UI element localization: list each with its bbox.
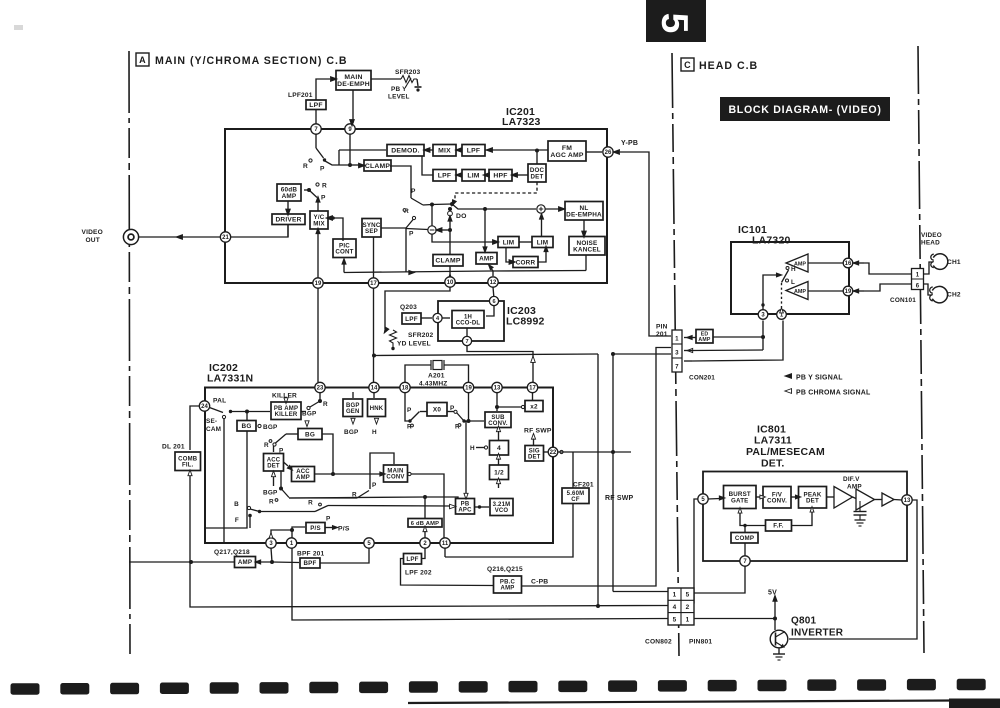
IC201 pin 10: [445, 277, 455, 287]
svg-text:CLAMP: CLAMP: [435, 258, 460, 265]
crystal A201: [433, 361, 442, 370]
wire CLAMP to pin 10: [449, 266, 451, 276]
svg-text:P/S: P/S: [310, 525, 321, 532]
svg-text:P: P: [411, 188, 416, 195]
svg-text:ACC: ACC: [296, 469, 310, 475]
svg-text:CLAMP: CLAMP: [365, 163, 390, 170]
wire DEMOD output left: [339, 149, 386, 151]
potentiometer SFR202: [390, 330, 397, 347]
wire COMP to pin7: [744, 543, 746, 556]
svg-text:COMP: COMP: [735, 535, 754, 542]
wire MAIN CONV to pin 11: [411, 474, 444, 538]
wire LPF202 to PB C AMP: [401, 559, 494, 586]
IC101 pin 3: [758, 310, 768, 320]
svg-text:PIN: PIN: [656, 324, 668, 331]
SUB CONV block: [485, 412, 511, 428]
wire X0 out: [447, 411, 454, 413]
svg-text:DET: DET: [528, 455, 541, 461]
svg-text:H: H: [470, 445, 475, 452]
wire to BG1: [246, 412, 248, 421]
wire LIM1 to CORR: [506, 248, 510, 263]
switch lever sync R: [406, 219, 414, 228]
svg-text:DO: DO: [456, 213, 467, 220]
svg-text:H: H: [372, 429, 377, 436]
legend PB Y arrow: [785, 374, 792, 379]
wire pin19 down: [468, 393, 470, 421]
svg-text:A201: A201: [428, 373, 445, 380]
contact BG2 P: [273, 443, 276, 446]
wire pin3 down: [271, 548, 272, 562]
wire ACC AMP to MAIN CONV: [315, 473, 382, 475]
svg-text:SFR203: SFR203: [395, 69, 421, 76]
wire CLAMP1 to PB switch: [390, 166, 411, 198]
contact pin23 P: [307, 406, 310, 409]
switch lever BG2: [276, 434, 287, 443]
wire LPF to IC203 pin4: [421, 317, 432, 319]
wire to MAIN CONV top: [370, 453, 394, 489]
svg-text:MIX: MIX: [313, 220, 325, 227]
arrow into pin19: [853, 289, 859, 293]
wire pin16 to CON101-1: [864, 263, 911, 274]
arrow HPF to LIM: [483, 173, 490, 178]
wire into VCO: [481, 506, 489, 508]
svg-text:4: 4: [673, 604, 677, 611]
svg-text:YD LEVEL: YD LEVEL: [397, 341, 431, 348]
junction Y/C feed: [331, 216, 335, 220]
svg-text:PB CHROMA SIGNAL: PB CHROMA SIGNAL: [796, 390, 871, 397]
svg-text:H: H: [791, 266, 796, 273]
wire SYNC SEP right: [381, 227, 406, 229]
svg-text:ACC: ACC: [267, 457, 281, 463]
wire to BPF: [272, 561, 299, 564]
wire pin19 to pin23: [317, 288, 319, 382]
wire comb to AMP: [129, 561, 234, 563]
wire ACC DET bgp: [273, 477, 275, 486]
wire pin17 to pin14: [373, 288, 375, 382]
bus pin1 to PIN801-5: [292, 548, 668, 620]
svg-text:R: R: [308, 500, 313, 507]
IC202 pin 24: [199, 401, 209, 411]
IC202 pin 18: [400, 382, 410, 392]
wire to PB APC corner: [425, 497, 458, 499]
svg-text:CCO-DL: CCO-DL: [456, 321, 481, 327]
svg-text:17: 17: [529, 386, 536, 392]
svg-text:KILLER: KILLER: [275, 412, 298, 418]
arrow SUB CONV up: [496, 426, 500, 432]
arrow into head switch: [776, 273, 782, 277]
LPF block second row: [433, 170, 456, 182]
junction 60dB switch: [307, 188, 311, 192]
COMB FIL block: [175, 452, 201, 471]
svg-text:17: 17: [370, 281, 377, 287]
arrow into NL DE-EMPHA: [559, 207, 566, 212]
svg-text:CH2: CH2: [947, 292, 961, 299]
SFR203 wiper arrow: [405, 78, 411, 88]
wire BURST to F/V: [756, 496, 761, 498]
contact L: [786, 279, 789, 282]
wire pin12 to AMP: [490, 267, 493, 276]
wire SIG DET up: [533, 439, 535, 446]
wire terminal to node 21: [139, 236, 220, 238]
wire pin1 to ED AMP: [684, 337, 696, 339]
switch lever pin23: [310, 401, 320, 407]
junction comb fil line: [189, 560, 193, 564]
CLAMP block upper: [364, 160, 391, 171]
svg-text:LEVEL: LEVEL: [388, 94, 410, 101]
contact MAIN CONV out: [408, 472, 411, 475]
dropout indicator: [448, 211, 453, 216]
wire subtractor top: [431, 205, 433, 227]
svg-text:LPF: LPF: [438, 173, 451, 180]
contact SECAM: [222, 415, 225, 418]
wire pin17b to x2: [532, 393, 534, 400]
wire pin18 to crystal: [405, 365, 431, 382]
svg-text:6: 6: [916, 284, 920, 290]
arrow into AMP right: [255, 560, 261, 564]
svg-text:BGP: BGP: [263, 424, 278, 431]
PB AMP KILLER block: [271, 402, 301, 420]
wire Y-PB to PIN201-1: [620, 152, 671, 336]
IC101 pin 1: [777, 310, 787, 320]
wire PAL contact to PB AMP KILLER: [231, 411, 270, 413]
junction bus split: [611, 352, 615, 356]
svg-text:PIN801: PIN801: [689, 639, 712, 646]
wire amp L to pin19: [808, 290, 843, 292]
wire Y/C MIX top: [317, 202, 319, 211]
svg-text:1H: 1H: [464, 314, 472, 320]
IC202 pin 22: [548, 447, 558, 457]
svg-text:LIM: LIM: [537, 239, 549, 246]
arrow DOC to HPF: [511, 173, 518, 178]
svg-text:MAIN: MAIN: [344, 74, 362, 81]
section A left border: [129, 51, 130, 656]
wire 6dB AMP up: [424, 497, 426, 519]
svg-text:P: P: [372, 482, 377, 489]
BG block 2: [298, 429, 322, 440]
svg-text:HEAD C.B: HEAD C.B: [699, 60, 758, 72]
junction 6dB tap: [423, 495, 427, 499]
DOC DET block: [528, 164, 546, 182]
svg-text:P: P: [450, 405, 455, 412]
wire main luminance line: [452, 204, 536, 209]
contact x2: [521, 405, 524, 408]
legend chroma arrow: [785, 389, 792, 394]
arrow into NOISE KANCEL: [582, 231, 587, 238]
contact X0 right R: [458, 424, 461, 427]
BGP GEN block: [343, 399, 363, 417]
junction BG2 conv: [331, 472, 335, 476]
svg-text:DRIVER: DRIVER: [275, 217, 301, 224]
wire AMP to BPF node: [256, 561, 273, 563]
LPF201 block: [306, 100, 326, 110]
ED AMP block: [696, 330, 713, 344]
wire to dropout point: [432, 203, 452, 206]
DEMOD block: [387, 145, 424, 157]
svg-text:FIL.: FIL.: [182, 463, 194, 469]
wire CORR to LIM2: [538, 249, 546, 262]
switch lever central: [411, 198, 423, 205]
arrow pin3 chroma: [687, 348, 693, 352]
wire pin4 into CCO-DL: [442, 317, 450, 319]
arrow up into BURST GATE: [738, 508, 742, 514]
MAIN DE-EMPH block: [336, 71, 371, 91]
wire to P/S: [292, 527, 305, 538]
ACC AMP block: [292, 467, 315, 482]
junction delayed-Y bus: [372, 354, 376, 358]
wire BG2 to conv line: [322, 434, 333, 474]
wire pin7 to PIN801-5: [694, 566, 745, 593]
svg-text:R: R: [264, 442, 269, 449]
arrow onto SFR202: [382, 327, 389, 334]
svg-text:6: 6: [492, 299, 495, 305]
IC201 outline: [225, 129, 607, 283]
IC801 pin 7: [740, 556, 750, 566]
wire PEAK to amp: [827, 496, 835, 498]
svg-text:F.F.: F.F.: [773, 523, 784, 530]
wire pin11 down: [444, 548, 446, 557]
wire to CLAMP1: [350, 164, 360, 166]
wire killer out stub: [301, 411, 306, 413]
wire pin19 to Y/C MIX: [317, 230, 319, 279]
svg-text:R: R: [303, 163, 308, 170]
svg-text:2: 2: [686, 604, 690, 611]
svg-text:MAIN (Y/CHROMA SECTION) C.B: MAIN (Y/CHROMA SECTION) C.B: [155, 55, 348, 67]
IC201 pin 21: [220, 232, 230, 242]
wire pin14 to HNK: [373, 392, 375, 398]
svg-text:DET: DET: [806, 498, 819, 505]
IC201 pin 12: [488, 277, 498, 287]
svg-text:R: R: [322, 183, 327, 190]
svg-text:SIG: SIG: [529, 448, 540, 454]
svg-text:LPF: LPF: [309, 102, 322, 109]
svg-text:P: P: [321, 195, 326, 202]
wire DO vertical: [449, 209, 451, 254]
svg-text:7: 7: [675, 364, 679, 371]
HPF block: [489, 170, 512, 182]
wire SFR203 to level point: [417, 79, 418, 86]
junction subtractor top: [430, 203, 434, 207]
svg-text:BGP: BGP: [263, 490, 278, 497]
wire pin5 to PIN801-2: [694, 499, 698, 604]
junction BG1 tap: [245, 410, 249, 414]
svg-text:AMP: AMP: [794, 289, 806, 295]
svg-text:CONV: CONV: [386, 475, 404, 481]
PB C AMP block: [494, 576, 522, 593]
arrow above pin3: [269, 533, 273, 538]
arrow up into LIM2: [544, 246, 548, 252]
wire pin13 down: [496, 393, 498, 411]
IC101 outline: [731, 242, 849, 314]
HNK block: [368, 399, 386, 417]
arrow into LPF top: [486, 148, 493, 153]
wire ED AMP to IC101: [713, 336, 763, 338]
svg-text:VCO: VCO: [495, 508, 509, 514]
wire BGP GEN top: [352, 392, 354, 398]
svg-text:1: 1: [673, 592, 677, 599]
wire pin7 stub: [684, 360, 692, 362]
svg-text:PB.C: PB.C: [500, 580, 516, 586]
wire to SUB CONV: [464, 420, 484, 422]
IC203 pin 6: [489, 296, 498, 305]
svg-text:GATE: GATE: [731, 497, 749, 504]
svg-text:CONV.: CONV.: [767, 498, 787, 505]
wire SYNC SEP to pin17: [373, 238, 375, 279]
IC202 pin 17b: [527, 382, 537, 392]
wire demod drop: [338, 150, 340, 165]
wire main line to AMP: [484, 209, 486, 251]
svg-text:VIDEO: VIDEO: [81, 229, 103, 236]
contact BG2 R: [269, 440, 272, 443]
arrow into MAIN DE-EMPH: [331, 77, 338, 82]
arrow HNK out: [374, 418, 378, 424]
junction AMP drop: [483, 207, 487, 211]
Y/C MIX block: [310, 211, 328, 229]
arrow up on DO vertical: [448, 215, 452, 221]
arrow P path up: [316, 196, 320, 202]
junction pin3 drop: [270, 560, 274, 564]
op-amp L: [786, 282, 808, 300]
svg-text:AMP: AMP: [479, 256, 494, 263]
svg-text:13: 13: [904, 498, 911, 504]
contact PAL: [229, 410, 232, 413]
op-amp A: [834, 487, 853, 509]
wire to CF201: [572, 452, 574, 488]
wire pin19 head: [853, 290, 864, 292]
arrow into PEAK: [795, 495, 801, 499]
svg-text:LA7331N: LA7331N: [207, 373, 253, 385]
svg-text:LPF: LPF: [405, 316, 418, 323]
wire H into divider: [476, 447, 484, 449]
arrow into 6dB AMP: [423, 526, 427, 532]
contact BG1: [258, 424, 261, 427]
wire pin10 to SFR202: [385, 287, 450, 329]
dashed dropout control: [455, 182, 537, 200]
svg-text:DET: DET: [267, 464, 280, 470]
switch lever RP: [315, 506, 328, 512]
arrow into pin 9: [350, 120, 355, 127]
CORR block: [513, 257, 538, 268]
svg-text:DE-EMPH: DE-EMPH: [337, 81, 370, 88]
svg-text:AMP: AMP: [698, 337, 710, 343]
junction y to pin3: [761, 335, 765, 339]
LIM block 2: [532, 237, 553, 248]
wire pin3 to switch: [763, 275, 777, 310]
AMP block center: [476, 253, 497, 265]
wire bus down to PIN801-4 bus: [597, 354, 599, 606]
PIC CONT block: [333, 239, 356, 258]
wire BF to RP switch: [260, 511, 316, 513]
junction rf swp: [611, 450, 615, 454]
wire below pin7: [315, 134, 317, 148]
svg-text:R: R: [269, 499, 274, 506]
IC202 pin 13: [492, 382, 502, 392]
wire PIN801-1 to Q801: [694, 618, 775, 620]
IC203 pin 4: [433, 313, 442, 322]
svg-text:DE-EMPHA: DE-EMPHA: [566, 211, 602, 218]
wire RF/chroma vertical to PIN801-1: [612, 354, 614, 592]
junction X0 left lever: [408, 419, 411, 422]
junction BF lever: [258, 510, 261, 513]
bus delayed Y to PIN201-7: [613, 353, 671, 355]
arrow up into Y/C MIX bottom: [316, 228, 320, 234]
svg-text:CH1: CH1: [947, 259, 961, 266]
x2 multiplier block: [525, 401, 543, 412]
wire 1/2 to divider: [498, 459, 500, 465]
section label A box: [136, 53, 149, 66]
wire BPF to pin5: [320, 548, 369, 563]
junction on CON802 bus: [596, 604, 600, 608]
IC203 pin 7: [462, 336, 471, 345]
arrow dropout onto switch: [450, 200, 456, 207]
svg-text:BG: BG: [305, 431, 315, 438]
right page border: [918, 46, 924, 653]
wire RP to PB APC: [328, 505, 450, 508]
connector CON802 PIN801: [668, 588, 694, 625]
IC101 pin 19: [843, 286, 853, 296]
arrow up into PEAK DET: [810, 507, 814, 513]
wire pin5 to BURST GATE: [708, 498, 720, 501]
svg-text:LA7323: LA7323: [502, 116, 541, 128]
arrow up into adder: [539, 213, 543, 219]
junction pin9 line: [348, 163, 352, 167]
wire up to IC101 pin3: [762, 321, 764, 351]
switch lever main conv: [357, 491, 369, 499]
subtractor circle: [428, 226, 436, 234]
wire CF201 to pin 11: [445, 504, 573, 558]
svg-text:18: 18: [402, 386, 409, 392]
switch lever PAL: [210, 408, 224, 413]
arrow up into CLAMP lower: [448, 274, 452, 280]
svg-text:LPF 202: LPF 202: [405, 570, 432, 577]
AMP block q217: [235, 557, 256, 568]
wire pin22 rf swp out: [558, 451, 631, 453]
wire into ACC DET top: [273, 446, 275, 452]
wire pin9 down: [349, 134, 351, 165]
junction dropout switch: [450, 202, 454, 206]
arrow into F/V: [760, 495, 766, 499]
BPF201 block: [300, 558, 320, 568]
video head CH1: [931, 254, 948, 270]
wire P/S out: [325, 527, 333, 529]
wire CON101 to CH2: [924, 284, 933, 295]
wire 60dB to DRIVER: [287, 201, 289, 212]
arrow into PB AMP KILLER: [284, 398, 288, 404]
wire crystal to pin19ic202: [444, 365, 469, 382]
svg-text:CON101: CON101: [890, 297, 916, 304]
arrow up into PIC CONT: [342, 258, 346, 264]
wire pin24 to COMB FIL: [190, 406, 199, 450]
IC201 pin 17: [368, 278, 378, 288]
svg-text:22: 22: [550, 450, 557, 456]
svg-text:Q203: Q203: [400, 304, 417, 311]
wire HPF-LIM: [485, 174, 489, 176]
svg-text:X0: X0: [433, 407, 441, 414]
IC801 outline: [703, 472, 907, 562]
Q203 LPF block: [402, 313, 421, 324]
svg-text:MAIN: MAIN: [387, 469, 403, 475]
junction x2 tap: [495, 405, 499, 409]
arrow up on delay line: [531, 356, 536, 362]
svg-text:LPF: LPF: [406, 556, 418, 563]
arrow on noise bus: [409, 270, 415, 274]
svg-text:HNK: HNK: [370, 406, 384, 412]
svg-text:Q217,Q218: Q217,Q218: [214, 549, 250, 556]
svg-text:KANCEL: KANCEL: [573, 246, 601, 253]
wire PIC CONT bottom: [343, 264, 345, 273]
PB APC block: [456, 499, 475, 515]
svg-text:P: P: [326, 516, 331, 523]
contact X0 left R: [411, 424, 414, 427]
